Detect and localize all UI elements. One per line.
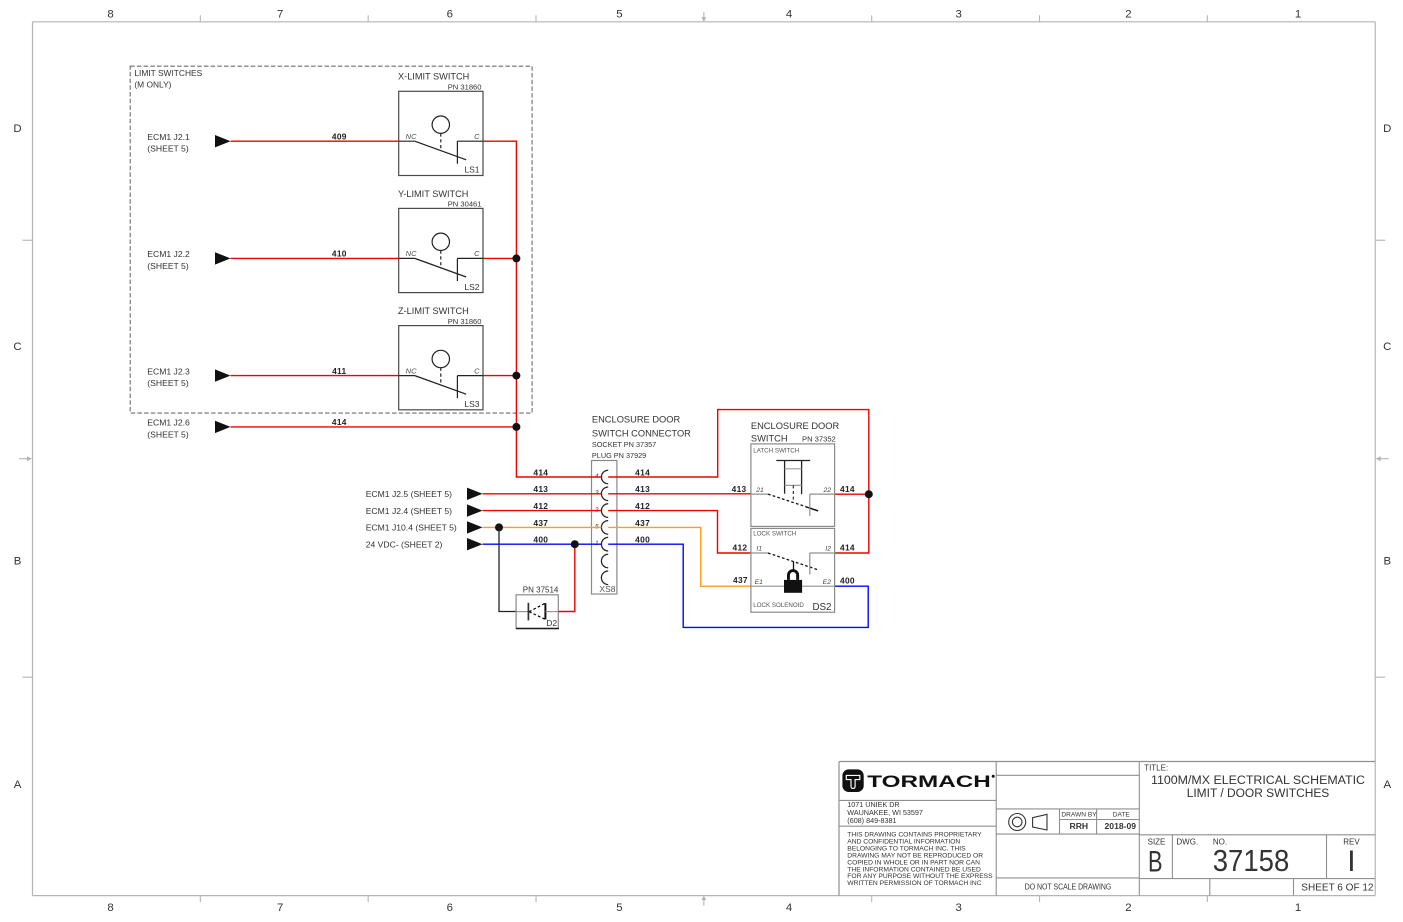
svg-text:B: B bbox=[1383, 556, 1391, 568]
svg-text:24 VDC- (SHEET 2): 24 VDC- (SHEET 2) bbox=[366, 539, 443, 549]
svg-text:PN 31860: PN 31860 bbox=[448, 83, 482, 92]
svg-text:5: 5 bbox=[616, 8, 622, 20]
svg-text:I1: I1 bbox=[756, 545, 762, 552]
svg-text:LS3: LS3 bbox=[464, 399, 479, 409]
svg-text:PN 37352: PN 37352 bbox=[802, 434, 836, 443]
svg-text:E1: E1 bbox=[755, 579, 764, 586]
svg-text:ENCLOSURE DOOR: ENCLOSURE DOOR bbox=[751, 421, 840, 431]
svg-text:ECM1 J2.3: ECM1 J2.3 bbox=[147, 366, 190, 376]
svg-text:A: A bbox=[1383, 779, 1391, 791]
svg-text:LS1: LS1 bbox=[464, 165, 479, 175]
svg-text:E2: E2 bbox=[823, 579, 832, 586]
svg-text:C: C bbox=[1383, 341, 1391, 353]
svg-text:413: 413 bbox=[732, 484, 747, 494]
svg-text:6: 6 bbox=[447, 8, 453, 20]
svg-text:ECM1 J10.4 (SHEET 5): ECM1 J10.4 (SHEET 5) bbox=[366, 523, 457, 533]
svg-text:2018-09: 2018-09 bbox=[1105, 821, 1137, 831]
svg-text:37158: 37158 bbox=[1213, 844, 1290, 878]
svg-text:SHEET 6 OF 12: SHEET 6 OF 12 bbox=[1301, 883, 1374, 894]
svg-text:SOCKET PN 37357: SOCKET PN 37357 bbox=[592, 440, 656, 449]
svg-text:(608) 849-8381: (608) 849-8381 bbox=[847, 816, 896, 825]
svg-text:I2: I2 bbox=[825, 545, 831, 552]
svg-text:C: C bbox=[474, 132, 480, 141]
svg-text:414: 414 bbox=[533, 467, 548, 477]
svg-text:LIMIT / DOOR SWITCHES: LIMIT / DOOR SWITCHES bbox=[1187, 786, 1330, 800]
svg-text:410: 410 bbox=[332, 249, 347, 259]
svg-text:5: 5 bbox=[616, 902, 622, 914]
svg-text:4: 4 bbox=[786, 902, 792, 914]
svg-text:ECM1 J2.5 (SHEET 5): ECM1 J2.5 (SHEET 5) bbox=[366, 489, 452, 499]
svg-text:8: 8 bbox=[107, 8, 113, 20]
svg-text:B: B bbox=[14, 556, 22, 568]
svg-text:D2: D2 bbox=[546, 618, 557, 628]
svg-text:DO NOT SCALE DRAWING: DO NOT SCALE DRAWING bbox=[1025, 883, 1112, 892]
svg-text:LATCH SWITCH: LATCH SWITCH bbox=[753, 447, 799, 454]
svg-text:6: 6 bbox=[447, 902, 453, 914]
svg-text:8: 8 bbox=[107, 902, 113, 914]
svg-text:C: C bbox=[13, 341, 21, 353]
svg-text:3: 3 bbox=[956, 8, 962, 20]
svg-text:400: 400 bbox=[840, 576, 855, 586]
svg-text:412: 412 bbox=[533, 501, 548, 511]
svg-text:XS8: XS8 bbox=[599, 584, 615, 594]
svg-text:SWITCH CONNECTOR: SWITCH CONNECTOR bbox=[592, 428, 691, 438]
svg-text:Z-LIMIT SWITCH: Z-LIMIT SWITCH bbox=[398, 306, 469, 316]
svg-text:22: 22 bbox=[822, 487, 831, 494]
svg-text:Y-LIMIT SWITCH: Y-LIMIT SWITCH bbox=[398, 189, 468, 199]
svg-text:21: 21 bbox=[755, 487, 764, 494]
svg-text:PLUG PN 37929: PLUG PN 37929 bbox=[592, 451, 646, 460]
svg-text:X-LIMIT SWITCH: X-LIMIT SWITCH bbox=[398, 72, 469, 82]
svg-text:414: 414 bbox=[635, 467, 650, 477]
svg-text:WRITTEN PERMISSION OF TORMACH: WRITTEN PERMISSION OF TORMACH INC bbox=[847, 880, 981, 887]
svg-text:LOCK SOLENOID: LOCK SOLENOID bbox=[753, 602, 804, 609]
svg-text:RRH: RRH bbox=[1069, 821, 1088, 831]
svg-text:(SHEET 5): (SHEET 5) bbox=[147, 261, 189, 271]
svg-text:DRAWN BY: DRAWN BY bbox=[1061, 812, 1097, 819]
svg-text:A: A bbox=[14, 779, 22, 791]
svg-text:2: 2 bbox=[1125, 8, 1131, 20]
svg-text:I: I bbox=[1347, 845, 1355, 878]
svg-text:7: 7 bbox=[277, 902, 283, 914]
svg-text:(SHEET 5): (SHEET 5) bbox=[147, 144, 189, 154]
svg-text:LOCK SWITCH: LOCK SWITCH bbox=[753, 531, 796, 538]
svg-text:DS2: DS2 bbox=[812, 602, 831, 613]
svg-text:D: D bbox=[13, 123, 21, 135]
svg-text:D: D bbox=[1383, 123, 1391, 135]
svg-text:411: 411 bbox=[332, 366, 346, 376]
svg-text:ECM1 J2.2: ECM1 J2.2 bbox=[147, 249, 190, 259]
svg-text:1: 1 bbox=[1295, 902, 1301, 914]
svg-text:414: 414 bbox=[332, 417, 347, 427]
svg-text:ECM1 J2.6: ECM1 J2.6 bbox=[147, 418, 190, 428]
svg-text:NC: NC bbox=[406, 132, 417, 141]
svg-text:PN 31860: PN 31860 bbox=[448, 317, 482, 326]
svg-text:(M ONLY): (M ONLY) bbox=[134, 80, 171, 90]
svg-text:413: 413 bbox=[635, 484, 650, 494]
svg-text:B: B bbox=[1148, 845, 1163, 878]
svg-text:7: 7 bbox=[277, 8, 283, 20]
svg-text:PN 30461: PN 30461 bbox=[448, 200, 482, 209]
svg-text:4: 4 bbox=[786, 8, 792, 20]
svg-text:437: 437 bbox=[733, 575, 748, 585]
svg-text:DWG.: DWG. bbox=[1176, 838, 1198, 847]
svg-text:LS2: LS2 bbox=[464, 282, 479, 292]
svg-text:1: 1 bbox=[1295, 8, 1301, 20]
svg-text:C: C bbox=[474, 366, 480, 375]
svg-text:400: 400 bbox=[635, 535, 650, 545]
svg-text:PN 37514: PN 37514 bbox=[523, 585, 559, 594]
svg-text:3: 3 bbox=[956, 902, 962, 914]
svg-text:412: 412 bbox=[635, 501, 650, 511]
svg-text:409: 409 bbox=[332, 131, 347, 141]
svg-text:NC: NC bbox=[406, 366, 417, 375]
svg-text:C: C bbox=[474, 249, 480, 258]
svg-text:SWITCH: SWITCH bbox=[751, 433, 788, 443]
svg-text:TORMACH: TORMACH bbox=[867, 772, 990, 791]
svg-text:DATE: DATE bbox=[1113, 812, 1131, 819]
svg-text:400: 400 bbox=[533, 535, 548, 545]
svg-text:414: 414 bbox=[840, 542, 855, 552]
svg-text:NC: NC bbox=[406, 249, 417, 258]
svg-text:LIMIT SWITCHES: LIMIT SWITCHES bbox=[134, 68, 202, 78]
svg-text:ECM1 J2.1: ECM1 J2.1 bbox=[147, 132, 190, 142]
svg-text:2: 2 bbox=[1125, 902, 1131, 914]
svg-text:437: 437 bbox=[635, 518, 650, 528]
svg-text:(SHEET 5): (SHEET 5) bbox=[147, 429, 189, 439]
svg-text:412: 412 bbox=[733, 542, 748, 552]
svg-text:ENCLOSURE DOOR: ENCLOSURE DOOR bbox=[592, 415, 681, 425]
svg-text:437: 437 bbox=[533, 518, 548, 528]
svg-text:TITLE:: TITLE: bbox=[1144, 763, 1168, 772]
svg-text:(SHEET 5): (SHEET 5) bbox=[147, 378, 189, 388]
svg-text:413: 413 bbox=[533, 484, 548, 494]
svg-text:414: 414 bbox=[840, 484, 855, 494]
svg-text:ECM1 J2.4 (SHEET 5): ECM1 J2.4 (SHEET 5) bbox=[366, 506, 452, 516]
